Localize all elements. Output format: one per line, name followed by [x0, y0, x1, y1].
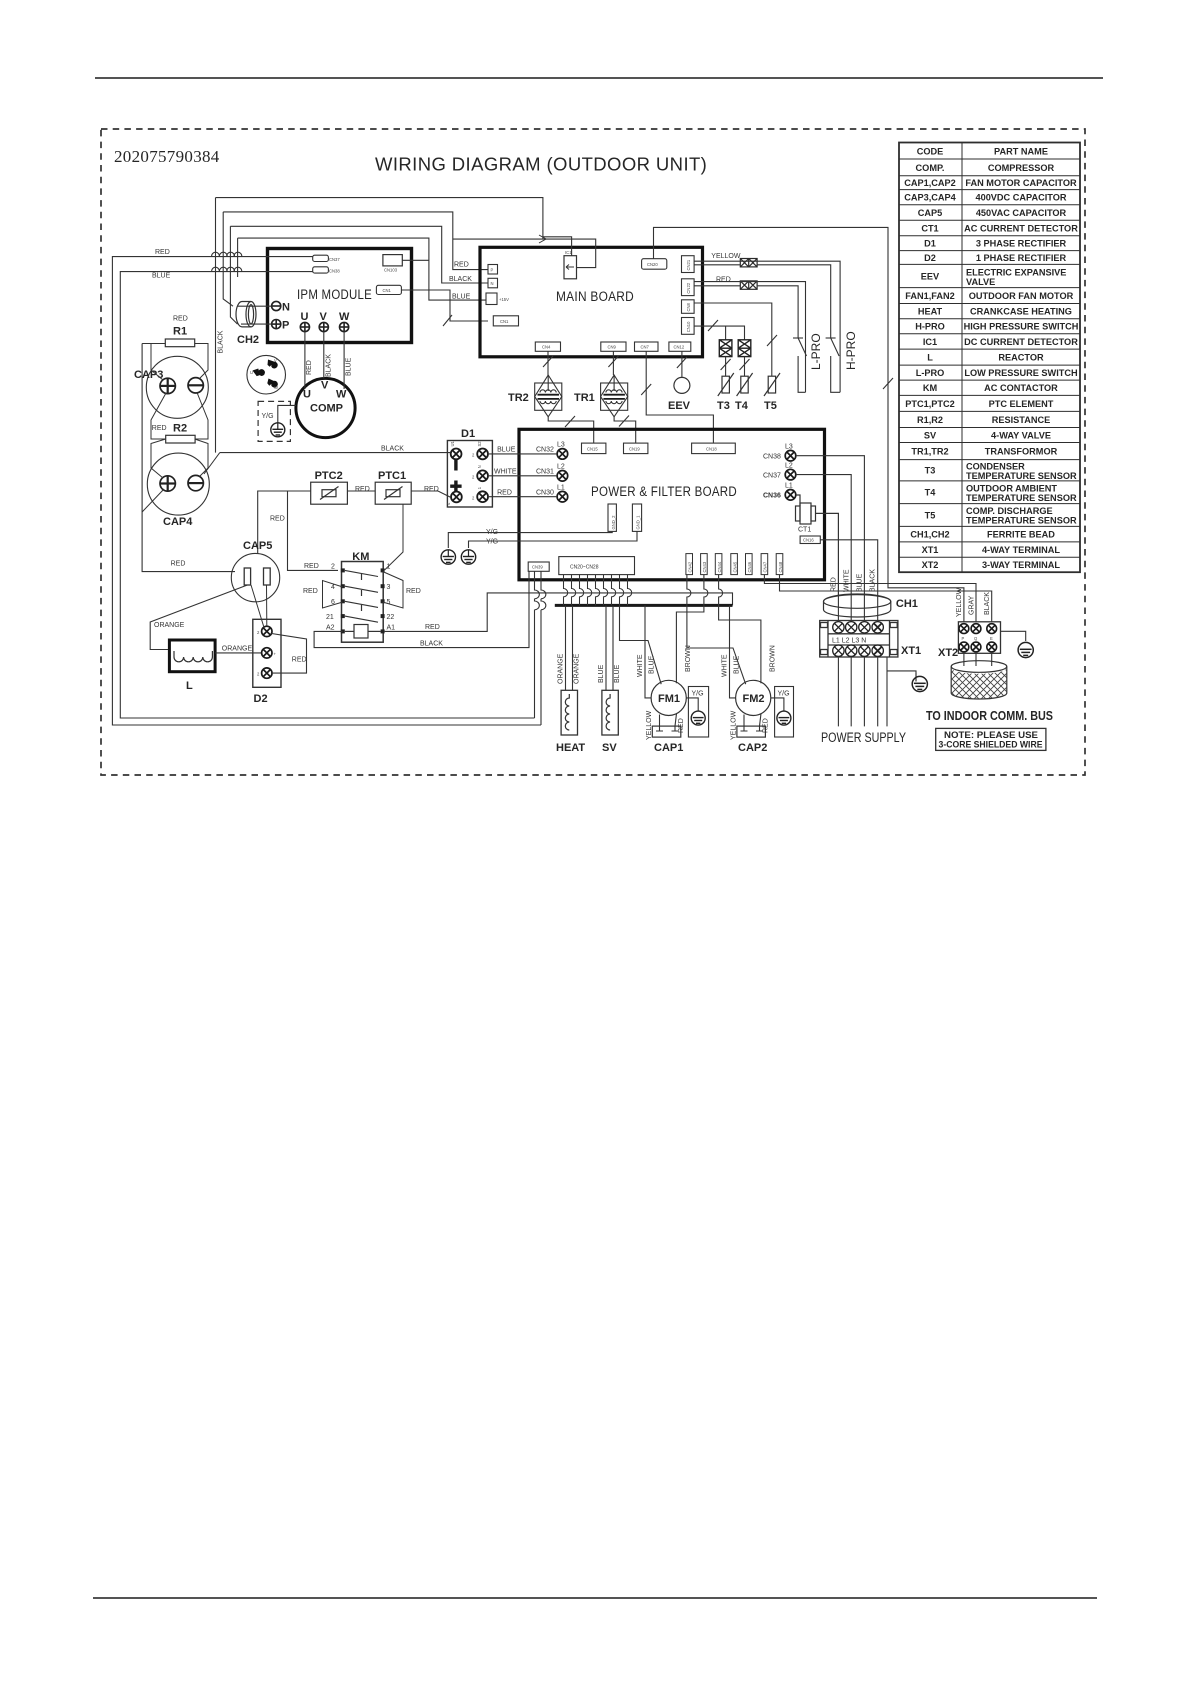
pin +15V (main) — [486, 293, 497, 305]
wire U COMP — [304, 332, 306, 389]
D1 terminal bottom left — [451, 492, 462, 503]
svg-text:A2: A2 — [326, 625, 335, 632]
svg-text:CN16: CN16 — [803, 538, 814, 543]
svg-text:U: U — [301, 311, 309, 323]
svg-text:COMPRESSOR: COMPRESSOR — [988, 163, 1055, 173]
KM left bracket 4-6 — [323, 581, 343, 609]
wire L to D2 (orange) — [215, 652, 261, 654]
svg-text:CN1: CN1 — [500, 319, 509, 324]
svg-text:V: V — [320, 311, 328, 323]
svg-text:RED: RED — [306, 360, 313, 375]
connector CN10 — [682, 318, 695, 335]
connector CN12 — [669, 342, 691, 351]
fan motor FM2 — [736, 680, 771, 715]
svg-text:T5: T5 — [925, 511, 936, 521]
wire TR1 to CN19 — [614, 417, 636, 443]
terminal block XT1 — [820, 621, 898, 658]
connector CN20 — [642, 259, 667, 270]
svg-text:BLACK: BLACK — [326, 354, 333, 377]
connector CN45 — [731, 554, 738, 575]
svg-text:4-WAY TERMINAL: 4-WAY TERMINAL — [982, 545, 1060, 555]
svg-text:RED: RED — [173, 316, 188, 323]
svg-text:CN32: CN32 — [536, 447, 554, 454]
svg-text:4-WAY VALVE: 4-WAY VALVE — [991, 431, 1051, 441]
svg-text:CN21: CN21 — [686, 259, 691, 270]
D1 terminal AC top left — [451, 449, 462, 460]
KM linkage marks — [361, 574, 363, 611]
break mark comm wire — [883, 378, 893, 389]
connector GND_2 — [608, 504, 616, 531]
svg-text:BLUE: BLUE — [857, 573, 864, 592]
connector CN19 — [624, 443, 648, 454]
ground (XT2) — [1018, 642, 1033, 657]
wire CN20 to comm — [654, 227, 964, 621]
wire GND_1 to ground — [469, 531, 638, 548]
wire CN9 to TR1 — [612, 351, 614, 375]
wire PTC1 to D1 — [411, 491, 451, 498]
svg-text:CN15: CN15 — [587, 446, 598, 451]
D2 terminal top — [262, 626, 272, 636]
svg-text:FERRITE BEAD: FERRITE BEAD — [987, 530, 1055, 540]
svg-text:BLACK: BLACK — [218, 330, 225, 353]
svg-text:N: N — [477, 465, 482, 468]
svg-text:21: 21 — [326, 614, 334, 621]
svg-text:CH2: CH2 — [237, 334, 259, 346]
connector CN22 — [682, 279, 695, 296]
wires CAP3 to R2 — [151, 393, 208, 440]
svg-text:KM: KM — [923, 383, 938, 393]
svg-text:D1: D1 — [924, 239, 936, 249]
svg-text:U: U — [303, 389, 311, 401]
svg-text:BLACK: BLACK — [449, 276, 472, 283]
ground (FM1) — [691, 711, 705, 725]
svg-text:ELECTRIC EXPANSIVE: ELECTRIC EXPANSIVE — [966, 268, 1066, 278]
left long vertical wire (outer) — [142, 344, 235, 572]
svg-text:BLUE: BLUE — [614, 664, 621, 683]
FM1 white wire — [645, 605, 651, 698]
svg-text:TEMPERATURE SENSOR: TEMPERATURE SENSOR — [966, 516, 1077, 526]
svg-text:P: P — [962, 636, 965, 641]
svg-text:RED: RED — [425, 624, 440, 631]
svg-text:PTC1: PTC1 — [378, 470, 406, 482]
svg-text:BLUE: BLUE — [346, 357, 353, 376]
svg-text:RED: RED — [171, 561, 186, 568]
sensor T5 — [764, 373, 780, 396]
page bottom rule — [93, 1597, 1097, 1599]
wire CAP5 riser — [258, 491, 288, 554]
valve coil SV — [602, 690, 618, 735]
connector CN21 — [682, 256, 695, 273]
break mark CN10 wire — [708, 320, 718, 331]
heater HEAT — [561, 690, 577, 735]
svg-text:REACTOR: REACTOR — [998, 353, 1044, 363]
svg-text:EEV: EEV — [668, 400, 691, 412]
svg-text:ORANGE: ORANGE — [558, 653, 565, 684]
pin N (main) — [488, 278, 498, 288]
terminal block XT2 — [958, 622, 1000, 654]
svg-text:N: N — [491, 281, 494, 286]
reactor L — [169, 640, 215, 672]
svg-text:Y/G: Y/G — [778, 691, 790, 698]
connector CN39 — [528, 562, 549, 571]
IC1 loop wires — [453, 239, 596, 268]
svg-text:5: 5 — [387, 599, 391, 606]
IPM module board U1 — [268, 249, 412, 343]
svg-text:CN38: CN38 — [329, 269, 340, 274]
connector CN8 — [682, 300, 695, 314]
svg-text:R2: R2 — [173, 423, 187, 435]
note box — [936, 728, 1046, 750]
svg-text:L2: L2 — [785, 463, 793, 470]
power and filter board — [519, 429, 825, 580]
svg-text:CRANKCASE HEATING: CRANKCASE HEATING — [970, 307, 1072, 317]
svg-text:3: 3 — [387, 584, 391, 591]
svg-text:GRAY: GRAY — [969, 595, 976, 615]
ground wire XT1 — [887, 657, 916, 726]
wire XT2 to ground — [1001, 631, 1026, 641]
ground (power) — [912, 673, 927, 692]
svg-text:CN7: CN7 — [641, 345, 650, 350]
svg-text:L2: L2 — [557, 464, 565, 471]
svg-text:BLACK: BLACK — [870, 569, 877, 592]
svg-text:TRANSFORMOR: TRANSFORMOR — [985, 447, 1058, 457]
svg-text:COMP. DISCHARGE: COMP. DISCHARGE — [966, 506, 1053, 516]
svg-text:RED: RED — [292, 656, 307, 663]
vertical wire BLACK — [215, 198, 217, 453]
svg-text:T4: T4 — [735, 400, 749, 412]
KM right bracket 1-3-5 — [383, 572, 403, 609]
connector CN16 — [800, 536, 820, 544]
wire CN103 out — [402, 259, 429, 261]
svg-text:T3: T3 — [925, 466, 936, 476]
D2 terminal middle — [262, 648, 272, 658]
ground (FM2) — [777, 711, 791, 725]
svg-text:HEAT: HEAT — [556, 742, 585, 754]
D1 plus mark — [450, 481, 461, 492]
wires through CH1 — [838, 595, 877, 621]
wires R1 to CAP3 — [151, 344, 208, 381]
connector CN9 — [601, 342, 626, 351]
CAP3 plus terminal — [160, 378, 175, 393]
svg-text:RED: RED — [454, 262, 469, 269]
wire KM 1 to PTC1 — [385, 504, 403, 570]
XT2 to shield wires — [964, 653, 992, 666]
ferrite mark (red pair) — [740, 281, 757, 289]
connector CN37 — [313, 255, 329, 261]
svg-text:LOW PRESSURE SWITCH: LOW PRESSURE SWITCH — [964, 368, 1078, 378]
wires CN21 to H-PRO — [694, 261, 840, 392]
svg-text:TO INDOOR COMM. BUS: TO INDOOR COMM. BUS — [926, 708, 1053, 723]
bus thick line — [555, 604, 733, 607]
svg-text:BLACK: BLACK — [420, 640, 443, 647]
svg-text:CN20~CN28: CN20~CN28 — [570, 565, 599, 571]
connector CN18 — [692, 443, 736, 454]
svg-text:V: V — [321, 380, 329, 392]
svg-text:T3: T3 — [717, 400, 730, 412]
svg-text:RED: RED — [304, 563, 319, 570]
svg-text:GND_1: GND_1 — [636, 515, 641, 530]
FM2 white wire — [730, 605, 736, 698]
svg-text:L: L — [186, 680, 193, 692]
svg-text:WHITE: WHITE — [722, 654, 729, 677]
top wire A — [216, 198, 543, 240]
connector CN103 — [383, 255, 402, 266]
svg-text:AC CURRENT DETECTOR: AC CURRENT DETECTOR — [964, 224, 1078, 234]
sensor T3 — [718, 373, 734, 396]
svg-text:BLUE: BLUE — [452, 294, 471, 301]
wire CN12 to EEV — [681, 351, 683, 377]
svg-text:BLUE: BLUE — [734, 655, 741, 674]
svg-text:AC CONTACTOR: AC CONTACTOR — [984, 383, 1058, 393]
svg-text:L1 L2 L3 N: L1 L2 L3 N — [832, 638, 866, 645]
svg-text:CN31: CN31 — [536, 468, 554, 475]
wire CN38 to XT1 L3 — [796, 456, 865, 595]
svg-text:CN103: CN103 — [384, 268, 398, 273]
Y/G ground dashed box — [258, 401, 290, 441]
wire CN1 IPM to MAIN — [401, 290, 488, 321]
svg-text:RED: RED — [406, 588, 421, 595]
svg-text:L-PRO: L-PRO — [916, 368, 945, 378]
svg-text:RED: RED — [424, 486, 439, 493]
connector CN48 — [776, 554, 783, 575]
wire BLACK to D1 — [220, 452, 451, 454]
svg-text:TR1,TR2: TR1,TR2 — [911, 447, 948, 457]
top wire BLUE feed — [238, 238, 486, 300]
rectifier D2 — [253, 619, 281, 687]
connector CN38 — [313, 267, 329, 273]
wire CN7 to CN18 — [646, 351, 713, 443]
CAP5 right plate — [264, 568, 271, 585]
svg-text:RED: RED — [303, 588, 318, 595]
svg-text:CN22: CN22 — [686, 282, 691, 293]
top wire to N — [223, 212, 488, 270]
svg-text:EEV: EEV — [921, 272, 940, 282]
wire D1 to CN32 BLUE — [488, 453, 557, 455]
svg-text:CN9: CN9 — [608, 345, 617, 350]
wire CN16 to XT1 N — [820, 540, 877, 595]
pin P (main) — [488, 265, 498, 275]
switch H-PRO — [826, 338, 841, 392]
svg-text:BLACK: BLACK — [984, 592, 991, 615]
table text — [904, 147, 1079, 571]
svg-text:CN48: CN48 — [778, 561, 783, 572]
fan motor FM1 — [651, 680, 686, 715]
svg-text:CN44: CN44 — [717, 561, 722, 572]
svg-text:L3: L3 — [785, 444, 793, 451]
svg-text:CAP1: CAP1 — [654, 742, 683, 754]
svg-text:VALVE: VALVE — [966, 277, 995, 287]
svg-text:BROWN: BROWN — [685, 645, 692, 672]
capacitor CAP2 — [737, 726, 766, 737]
D2 terminal bottom — [262, 668, 272, 678]
wire GND_2 to ground — [448, 531, 612, 548]
svg-text:CN37: CN37 — [763, 472, 781, 479]
connector CN15 — [582, 443, 606, 454]
svg-text:CN4: CN4 — [542, 345, 551, 350]
power supply wires — [838, 656, 877, 726]
svg-text:TEMPERATURE SENSOR: TEMPERATURE SENSOR — [966, 493, 1077, 503]
svg-text:W: W — [336, 389, 347, 401]
svg-text:XT2: XT2 — [938, 647, 958, 659]
svg-text:WHITE: WHITE — [637, 654, 644, 677]
FM2 blue wire — [687, 575, 746, 685]
wire V COMP — [323, 332, 325, 379]
svg-text:DC CURRENT DETECTOR: DC CURRENT DETECTOR — [964, 337, 1078, 347]
svg-text:CAP3,CAP4: CAP3,CAP4 — [904, 193, 956, 203]
svg-text:RED: RED — [716, 277, 731, 284]
XT1 terminals top — [833, 622, 884, 633]
svg-text:GND_2: GND_2 — [611, 515, 616, 530]
svg-text:R1: R1 — [173, 326, 187, 338]
svg-text:BLUE: BLUE — [152, 273, 171, 280]
wire CH2 to P — [241, 323, 272, 325]
transformer mark T4 — [738, 340, 751, 357]
svg-text:POWER & FILTER BOARD: POWER & FILTER BOARD — [591, 484, 737, 499]
wire CAP5 to L (orange) — [150, 585, 247, 650]
svg-text:HIGH PRESSURE SWITCH: HIGH PRESSURE SWITCH — [964, 322, 1079, 332]
svg-text:CN45: CN45 — [732, 561, 737, 572]
svg-text:1 PHASE RECTIFIER: 1 PHASE RECTIFIER — [976, 253, 1067, 263]
top wire to P — [230, 226, 488, 283]
svg-text:XT2: XT2 — [922, 560, 939, 570]
svg-text:N: N — [282, 302, 290, 314]
svg-text:H-PRO: H-PRO — [915, 322, 945, 332]
svg-text:TEMPERATURE SENSOR: TEMPERATURE SENSOR — [966, 471, 1077, 481]
FM2 brown wire — [719, 575, 761, 684]
connector CN20~CN28 — [559, 557, 635, 575]
svg-text:CN46: CN46 — [747, 561, 752, 572]
D1 minus mark — [454, 459, 457, 471]
connector CN1 (IPM) — [376, 285, 401, 294]
svg-text:L1: L1 — [785, 483, 793, 490]
D1 terminal mid right — [477, 470, 488, 481]
svg-text:450VAC CAPACITOR: 450VAC CAPACITOR — [976, 208, 1067, 218]
break mark on CN1 wire — [443, 315, 452, 326]
compressor COMP — [296, 378, 355, 437]
svg-text:PTC2: PTC2 — [315, 470, 343, 482]
FM1 brown wire — [676, 575, 708, 684]
CAP3 minus terminal — [188, 378, 203, 393]
CN2x pin drops — [564, 575, 632, 606]
svg-text:CN43: CN43 — [702, 561, 707, 572]
svg-text:CN30: CN30 — [536, 489, 554, 496]
svg-text:XT1: XT1 — [922, 545, 939, 555]
svg-text:XT1: XT1 — [901, 645, 921, 657]
svg-text:T5: T5 — [764, 400, 777, 412]
svg-text:3-CORE SHIELDED WIRE: 3-CORE SHIELDED WIRE — [939, 739, 1043, 749]
svg-text:WHITE: WHITE — [494, 468, 517, 475]
svg-text:A1: A1 — [387, 625, 396, 632]
svg-text:E: E — [990, 636, 993, 641]
ferrite bead CH2 — [236, 302, 256, 327]
D1 terminal out top right — [477, 449, 488, 460]
svg-text:L3: L3 — [557, 442, 565, 449]
CAP4 minus terminal — [188, 475, 203, 490]
wire D2 loop (red) — [272, 634, 307, 674]
svg-text:FAN MOTOR CAPACITOR: FAN MOTOR CAPACITOR — [965, 178, 1077, 188]
sensor T4 — [737, 373, 753, 396]
main board — [480, 247, 703, 356]
svg-text:BLACK: BLACK — [381, 445, 404, 452]
wire hops on RED/BLUE feeds — [212, 252, 242, 271]
wire TR2 to CN15 — [548, 417, 594, 443]
svg-text:RESISTANCE: RESISTANCE — [992, 415, 1051, 425]
svg-text:HEAT: HEAT — [918, 307, 943, 317]
wire D1 to CN30 RED — [488, 496, 557, 498]
wire T4 — [744, 357, 746, 377]
svg-text:CAP5: CAP5 — [918, 208, 943, 218]
svg-text:FM1: FM1 — [658, 693, 680, 705]
wire CN8 to T5 — [694, 303, 772, 376]
svg-text:OUTDOOR FAN MOTOR: OUTDOOR FAN MOTOR — [969, 291, 1074, 301]
shielded cable — [951, 661, 1007, 699]
wire KM A2 black — [314, 571, 529, 647]
connector CN42 — [686, 554, 693, 575]
CAP5 left plate — [244, 568, 250, 585]
svg-text:CAP4: CAP4 — [163, 516, 193, 528]
svg-text:SV: SV — [602, 742, 617, 754]
svg-text:FAN1,FAN2: FAN1,FAN2 — [905, 291, 955, 301]
connector CN47 — [761, 554, 768, 575]
svg-text:Y/G: Y/G — [486, 539, 498, 546]
svg-text:CH1,CH2: CH1,CH2 — [910, 530, 949, 540]
svg-text:RED: RED — [831, 577, 838, 592]
svg-text:S2: S2 — [477, 441, 482, 447]
svg-text:PTC1,PTC2: PTC1,PTC2 — [905, 399, 955, 409]
svg-text:CN37: CN37 — [329, 257, 340, 262]
svg-text:U1: U1 — [450, 440, 455, 446]
SV wires — [606, 605, 613, 690]
page top rule — [95, 77, 1103, 79]
svg-text:U: U — [250, 370, 253, 375]
wire CN39 drops — [535, 571, 546, 725]
svg-text:ORANGE: ORANGE — [222, 645, 253, 652]
connector GND_1 — [632, 504, 641, 531]
svg-text:H-PRO: H-PRO — [844, 331, 858, 370]
svg-text:400VDC CAPACITOR: 400VDC CAPACITOR — [975, 193, 1066, 203]
svg-text:CT1: CT1 — [921, 224, 938, 234]
FM1 yellow wire — [659, 715, 661, 727]
bus thin line — [487, 592, 732, 594]
svg-text:RED: RED — [355, 486, 370, 493]
svg-text:L1: L1 — [557, 485, 565, 492]
svg-text:L: L — [927, 353, 933, 363]
wire CN47 to XT2 gray — [764, 575, 976, 622]
wire T3 — [725, 357, 727, 377]
svg-text:TR2: TR2 — [508, 392, 529, 404]
svg-text:PART NAME: PART NAME — [994, 147, 1048, 157]
svg-text:D1: D1 — [461, 428, 475, 440]
svg-text:YELLOW: YELLOW — [956, 587, 963, 617]
svg-text:CN1: CN1 — [383, 288, 392, 293]
svg-text:CN36: CN36 — [763, 493, 781, 500]
svg-text:L-PRO: L-PRO — [809, 333, 823, 370]
svg-text:W: W — [274, 385, 278, 390]
svg-text:CH1: CH1 — [896, 598, 918, 610]
FM2 ground Y/G — [775, 687, 794, 738]
svg-text:WHITE: WHITE — [844, 569, 851, 592]
svg-text:IC1: IC1 — [923, 337, 937, 347]
svg-text:W: W — [339, 311, 350, 323]
svg-text:Y/G: Y/G — [262, 413, 274, 420]
svg-text:CAP1,CAP2: CAP1,CAP2 — [904, 178, 956, 188]
svg-text:CN10: CN10 — [686, 321, 691, 332]
XT1 terminals bottom — [833, 645, 884, 656]
svg-text:T4: T4 — [925, 488, 937, 498]
svg-text:CN20: CN20 — [647, 262, 658, 267]
left border wire BLUE — [120, 272, 534, 718]
svg-text:MAIN BOARD: MAIN BOARD — [556, 289, 634, 304]
